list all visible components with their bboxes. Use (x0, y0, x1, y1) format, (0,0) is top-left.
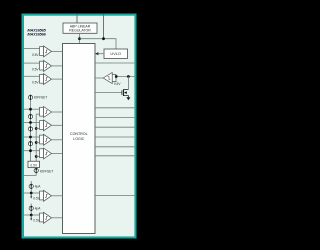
node rail A row5 (29, 121, 32, 124)
wire IN pin to regulator (76, 14, 78, 24)
wire input IN7 (24, 150, 40, 152)
svg-text:UVLO: UVLO (110, 51, 121, 56)
wire FET gate from control logic (95, 92, 122, 94)
comparator row1 (40, 46, 52, 57)
node row9 (30, 214, 33, 217)
current source rail A (between rows 6-7) (28, 141, 32, 147)
svg-text:CONTROL: CONTROL (70, 132, 88, 136)
wire input IN3 (24, 75, 40, 77)
comparator row8 (40, 190, 52, 201)
wire output right 5 (95, 146, 134, 148)
wire input IN6 (24, 136, 40, 138)
node row8 (30, 192, 33, 195)
wire IOFFSET pin (24, 175, 36, 177)
reference box 0.5V (28, 161, 40, 167)
comparator row7 (40, 148, 52, 159)
wire rail B tap row7 (36, 156, 39, 158)
control logic block (63, 44, 96, 234)
svg-text:LOGIC: LOGIC (73, 137, 85, 141)
svg-text:IOFFSET: IOFFSET (40, 170, 54, 174)
comparator row3 (40, 74, 52, 85)
svg-text:IOFFSET: IOFFSET (34, 96, 48, 100)
comparator row9 (40, 212, 52, 223)
wire output right row A (95, 62, 134, 64)
current source IOFFSET (top) (28, 94, 32, 100)
comparator row2 (40, 60, 52, 71)
wire RESET pin (116, 76, 134, 78)
svg-text:4μA: 4μA (35, 207, 42, 211)
comparator MR (points left) (103, 73, 116, 84)
wire reference arrow row8 (30, 193, 32, 197)
wire input IN5 (24, 122, 40, 124)
wire comparator row4 output (52, 111, 63, 113)
wire IN sense pin (top) (103, 14, 105, 39)
wire rail A (IOFFSET chain) (30, 99, 32, 161)
svg-text:0.5V: 0.5V (32, 53, 39, 57)
wire regulator output down to control logic (79, 33, 81, 43)
wire FET drain rail (127, 77, 129, 90)
wire comparator row9 output (52, 217, 63, 219)
wire reference arrow row9 (30, 215, 32, 219)
wire rail B tap row6 (36, 142, 39, 144)
regulator U1 ABP LINEAR REGULATOR (63, 23, 97, 33)
wire UVLO output to control logic (98, 53, 105, 55)
comparator row5 (40, 120, 52, 131)
node rail A row6 (29, 136, 32, 139)
wire output right 6 (95, 155, 134, 157)
svg-text:4μA: 4μA (35, 185, 42, 189)
diagram background fill (24, 16, 134, 237)
wire input IN8 (24, 192, 40, 194)
comparator row6 (40, 134, 52, 145)
wire comparator row1 output (52, 50, 63, 52)
wire rail B tap row4 (36, 113, 39, 115)
current source IOFFSET (lower) (34, 168, 38, 176)
svg-text:0.5V: 0.5V (30, 164, 37, 168)
title MAX16565 / MAX16566 (27, 27, 46, 36)
wire comparator row2 output (52, 65, 63, 67)
wire rail B (reference) (35, 114, 37, 161)
wire output right 1 (95, 107, 134, 109)
wire input IN1 (24, 48, 40, 50)
node MR input (115, 75, 118, 78)
wire output right 3 (95, 126, 134, 128)
node IN sense junction (102, 37, 105, 40)
svg-text:0.5V: 0.5V (114, 82, 121, 86)
node rail B row5 (35, 127, 38, 130)
wire input IN2 (24, 62, 40, 64)
wire comparator row8 output (52, 195, 63, 197)
node ABP junction (78, 37, 81, 40)
svg-text:MAX16566: MAX16566 (27, 32, 46, 37)
wire input IN9 (24, 214, 40, 216)
comparator U2 UVLO (104, 49, 128, 59)
svg-text:0.5V: 0.5V (32, 81, 39, 85)
svg-text:REGULATOR: REGULATOR (69, 29, 91, 33)
wire input IN4 (24, 108, 40, 110)
wire comparator row7 output (52, 153, 63, 155)
node rail A row4 (29, 108, 32, 111)
node rail A row7 (29, 149, 32, 152)
wire output right 2 (95, 117, 134, 119)
ground (126, 97, 130, 100)
comparator row4 (40, 107, 52, 118)
wire comparator MR output (95, 77, 103, 79)
wire comparator row3 output (52, 78, 63, 80)
node FET drain tap (127, 75, 130, 78)
current source 4uA row9 (29, 204, 33, 216)
current source 4uA row8 (29, 181, 33, 193)
transistor Q1 open-drain (122, 89, 128, 97)
svg-text:0.5V: 0.5V (32, 67, 39, 71)
wire comparator row6 output (52, 139, 63, 141)
node rail B row7 (35, 155, 38, 158)
arrowhead UVLO into control logic (95, 52, 98, 55)
current source rail A (between rows 5-6) (28, 126, 32, 132)
current source rail A (between rows 4-5) (28, 114, 32, 120)
wire rail B tap row5 (36, 128, 39, 130)
wire output right 7 (95, 194, 134, 196)
diagram frame (teal border) (22, 14, 137, 239)
wire comparator row5 output (52, 124, 63, 126)
wire output right 4 (95, 136, 134, 138)
node rail B row6 (35, 141, 38, 144)
wire ABP junction to UVLO (80, 39, 117, 49)
